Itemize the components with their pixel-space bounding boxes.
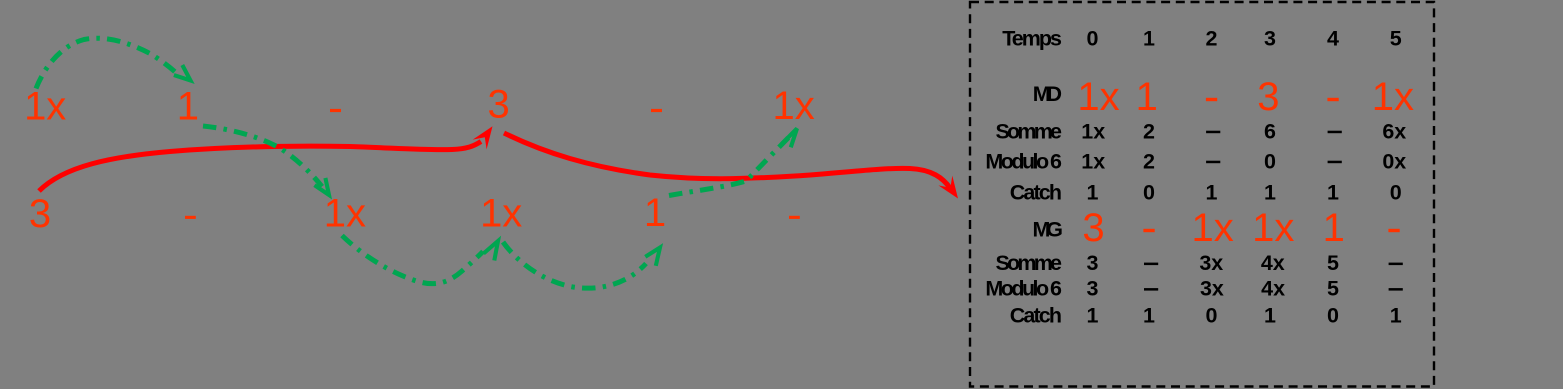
svg-text:1x: 1x <box>1372 75 1414 119</box>
Somme MG dash t1 <box>1144 263 1158 266</box>
green arc C: MG t2 to MG t3 <box>342 236 483 284</box>
Modulo6 MD dash t2 <box>1206 161 1220 164</box>
svg-text:5: 5 <box>1390 27 1402 51</box>
svg-text:1x: 1x <box>1077 75 1119 119</box>
red arrowhead 2 <box>938 176 958 199</box>
svg-text:0: 0 <box>1264 149 1276 173</box>
green arrowhead C <box>484 241 499 261</box>
green arc B: MD t1 to MG t2 <box>203 126 322 187</box>
svg-text:1: 1 <box>1143 304 1155 328</box>
table row Modulo6 MD values <box>1081 149 1406 173</box>
red curve 1: MG t0 to MD t3 <box>39 142 481 192</box>
svg-text:3: 3 <box>1082 206 1104 250</box>
red curve 2: MD t3 onward <box>504 133 950 188</box>
svg-text:Somme: Somme <box>996 119 1063 143</box>
svg-text:3: 3 <box>29 192 51 236</box>
Somme MD dash t2 <box>1206 131 1220 134</box>
svg-text:1: 1 <box>1087 180 1099 204</box>
svg-text:1x: 1x <box>1081 119 1105 143</box>
green arrowhead A <box>174 65 191 81</box>
svg-text:1: 1 <box>1264 304 1276 328</box>
green arrowhead B <box>315 178 330 195</box>
green arc A: MD t0 to MD t1 <box>36 38 178 88</box>
svg-text:1: 1 <box>1206 180 1218 204</box>
svg-text:0: 0 <box>1327 304 1339 328</box>
svg-text:0x: 0x <box>1382 149 1406 173</box>
Modulo6 MG dash t1 <box>1144 288 1158 291</box>
svg-text:1: 1 <box>1087 304 1099 328</box>
svg-text:1x: 1x <box>1191 206 1233 250</box>
svg-text:3: 3 <box>1087 276 1099 300</box>
svg-text:3: 3 <box>1257 75 1279 119</box>
table dashed border <box>970 2 1434 387</box>
svg-text:1: 1 <box>644 191 666 235</box>
table row Catch MD values <box>1087 180 1402 204</box>
svg-text:4: 4 <box>1327 27 1339 51</box>
table row MG values (red) <box>1082 206 1345 250</box>
Modulo6 MG dash t5 <box>1389 288 1403 291</box>
svg-text:1: 1 <box>1390 304 1402 328</box>
svg-text:3: 3 <box>1087 251 1099 275</box>
svg-text:5: 5 <box>1327 251 1339 275</box>
svg-text:4x: 4x <box>1261 251 1285 275</box>
MD hyphen t2 <box>1206 98 1217 101</box>
svg-text:1x: 1x <box>24 85 66 129</box>
svg-text:2: 2 <box>1143 149 1155 173</box>
green arc D: MG t3 to MG t4 <box>503 242 646 288</box>
svg-text:MD: MD <box>1033 82 1062 106</box>
svg-text:3x: 3x <box>1200 276 1224 300</box>
green arc E: MG t4 to MD t5 <box>669 137 789 196</box>
svg-text:1: 1 <box>1143 27 1155 51</box>
throw MD t2: hyphen <box>330 109 341 112</box>
svg-text:1x: 1x <box>772 84 814 128</box>
table row Catch MG values <box>1087 304 1402 328</box>
svg-text:1x: 1x <box>1081 149 1105 173</box>
svg-text:3x: 3x <box>1199 251 1223 275</box>
MG hyphen t5 <box>1388 229 1399 232</box>
svg-text:1: 1 <box>1264 180 1276 204</box>
svg-text:6x: 6x <box>1382 119 1406 143</box>
svg-text:1: 1 <box>1327 180 1339 204</box>
table row Somme MD values <box>1081 119 1406 143</box>
svg-text:Catch: Catch <box>1010 304 1062 328</box>
svg-text:Temps: Temps <box>1002 27 1062 51</box>
svg-text:2: 2 <box>1143 119 1155 143</box>
svg-text:5: 5 <box>1327 276 1339 300</box>
svg-text:1x: 1x <box>480 192 522 236</box>
svg-text:4x: 4x <box>1261 276 1285 300</box>
svg-text:Catch: Catch <box>1010 180 1062 204</box>
svg-text:0: 0 <box>1390 180 1402 204</box>
table row Somme MG values <box>1087 251 1340 275</box>
table row Modulo6 MG values <box>1087 276 1340 300</box>
green arrowhead E <box>782 129 797 148</box>
svg-text:0: 0 <box>1206 304 1218 328</box>
MD hyphen t4 <box>1327 98 1338 101</box>
svg-text:Modulo 6: Modulo 6 <box>985 276 1062 300</box>
svg-text:Somme: Somme <box>996 251 1063 275</box>
Modulo6 MD dash t4 <box>1328 161 1342 164</box>
svg-text:1: 1 <box>1323 206 1345 250</box>
svg-text:2: 2 <box>1206 27 1218 51</box>
Somme MD dash t4 <box>1328 131 1342 134</box>
svg-text:1: 1 <box>1136 75 1158 119</box>
throw MD t4: hyphen <box>651 109 662 112</box>
svg-text:6: 6 <box>1264 119 1276 143</box>
svg-text:0: 0 <box>1087 27 1099 51</box>
MG hyphen t1 <box>1143 229 1154 232</box>
svg-text:1: 1 <box>177 85 199 129</box>
svg-text:3: 3 <box>1264 27 1276 51</box>
svg-text:3: 3 <box>487 83 509 127</box>
svg-text:Modulo 6: Modulo 6 <box>985 150 1062 174</box>
Somme MG dash t5 <box>1389 263 1403 266</box>
throw MG t1: hyphen <box>185 216 196 219</box>
svg-text:MG: MG <box>1033 217 1064 241</box>
svg-text:1x: 1x <box>1252 206 1294 250</box>
red arrowhead 1 <box>473 126 493 149</box>
green arrowhead D <box>645 248 660 266</box>
svg-text:0: 0 <box>1143 180 1155 204</box>
table row MD values (red) <box>1077 75 1414 119</box>
throw MG t5: hyphen <box>789 216 800 219</box>
table row Temps values <box>1087 27 1402 51</box>
